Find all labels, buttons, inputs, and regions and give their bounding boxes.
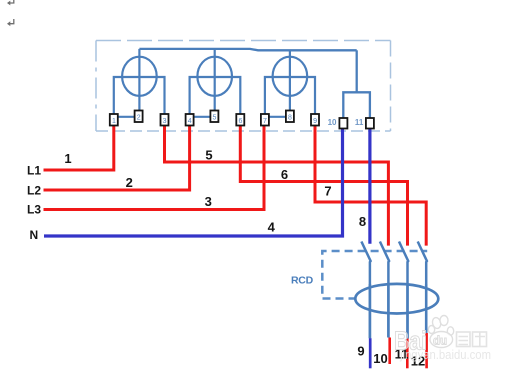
RCD pole 3 switch blade xyxy=(399,242,408,339)
wire 7 terminal 9 to RCD pole 4 xyxy=(315,126,426,246)
svg-text:8: 8 xyxy=(359,214,366,229)
svg-text:1: 1 xyxy=(112,118,116,125)
wire 1 L1 to terminal 1 xyxy=(44,126,114,171)
terminal 7 xyxy=(261,114,269,126)
svg-text:5: 5 xyxy=(213,114,217,121)
wire 11 phase output xyxy=(406,339,409,369)
svg-text:5: 5 xyxy=(205,147,212,162)
meter enclosure dashed box xyxy=(96,41,391,132)
svg-text:2: 2 xyxy=(137,114,141,121)
neutral terminal bracket wire xyxy=(343,92,370,118)
svg-text:L3: L3 xyxy=(27,203,41,217)
RCD toroid ellipse xyxy=(355,284,438,314)
svg-text:10: 10 xyxy=(328,118,337,127)
wire 9 neutral output xyxy=(369,338,372,368)
wire 8 terminal 11 to RCD pole 1 xyxy=(368,128,371,244)
RCD pole 1 wire through toroid xyxy=(369,284,372,338)
coil circle element 1 xyxy=(122,57,157,96)
svg-text:7: 7 xyxy=(324,184,331,199)
svg-text:L1: L1 xyxy=(27,164,41,178)
RCD pole 4 wire through toroid xyxy=(425,284,428,333)
coil circle element 3 xyxy=(273,57,308,96)
RCD pole 3 wire through toroid xyxy=(406,284,409,339)
svg-text:4: 4 xyxy=(188,118,192,125)
svg-text:7: 7 xyxy=(263,118,267,125)
RCD dashed enclosure and linkage line xyxy=(322,251,427,299)
svg-text:du: du xyxy=(433,336,447,348)
wire 10 phase output xyxy=(388,338,391,365)
RCD pole 4 switch blade xyxy=(418,242,427,334)
terminal 5 xyxy=(210,111,218,123)
terminal 11 xyxy=(355,118,374,129)
wire 2 L2 to terminal 4 xyxy=(44,126,190,191)
terminal 10 xyxy=(328,118,348,129)
svg-text:L2: L2 xyxy=(27,184,41,198)
wire 12 phase output xyxy=(425,333,428,368)
wire 6 terminal 6 to RCD pole 3 xyxy=(240,126,407,246)
svg-text:6: 6 xyxy=(281,167,288,182)
svg-text:8: 8 xyxy=(288,114,292,121)
terminal 4 xyxy=(186,114,194,126)
measuring element 1 current loop wiring xyxy=(114,77,165,114)
terminal 2 xyxy=(135,111,143,123)
RCD pole 2 wire through toroid xyxy=(387,284,390,338)
measuring element 1 voltage tap wire xyxy=(138,49,140,111)
terminal link wire 7-8 xyxy=(269,116,286,118)
svg-text:RCD: RCD xyxy=(291,275,314,287)
svg-text:jingyan.baidu.com: jingyan.baidu.com xyxy=(399,348,491,362)
measuring element 3 current loop wiring xyxy=(265,77,315,114)
measuring element 3 voltage tap wire xyxy=(289,50,291,110)
svg-text:2: 2 xyxy=(126,175,133,190)
svg-text:N: N xyxy=(30,228,39,242)
RCD pole 1 switch blade xyxy=(361,242,370,339)
svg-text:11: 11 xyxy=(355,118,364,127)
wire 4 neutral N to terminal 10 xyxy=(44,128,343,236)
svg-text:9: 9 xyxy=(313,118,317,125)
RCD pole 2 switch blade xyxy=(380,242,389,338)
wire bus drop to neutral terminal bracket xyxy=(356,50,358,92)
paragraph return mark top 1 xyxy=(7,0,14,5)
svg-text:3: 3 xyxy=(163,118,167,125)
paragraph return mark top 2 xyxy=(7,19,14,26)
watermark baidu jingyan xyxy=(394,316,491,362)
svg-text:1: 1 xyxy=(64,151,71,166)
terminal 1 xyxy=(110,114,118,126)
terminal 9 xyxy=(311,114,319,126)
terminal 6 xyxy=(236,114,244,126)
measuring element 2 current loop wiring xyxy=(190,77,241,114)
wire 3 L3 to terminal 7 xyxy=(44,126,265,210)
svg-text:9: 9 xyxy=(357,344,364,359)
terminal 8 xyxy=(286,111,294,123)
terminal 3 xyxy=(161,114,169,126)
svg-text:4: 4 xyxy=(268,220,276,235)
voltage bus wire xyxy=(139,49,356,50)
coil circle element 2 xyxy=(197,57,232,96)
wire 5 terminal 3 to RCD pole 2 xyxy=(165,126,389,246)
svg-text:3: 3 xyxy=(205,194,212,209)
terminal link wire 4-5 xyxy=(194,116,211,118)
svg-text:6: 6 xyxy=(238,118,242,125)
svg-text:10: 10 xyxy=(373,351,387,366)
measuring element 2 voltage tap wire xyxy=(214,49,216,111)
terminal link wire 1-2 xyxy=(118,116,135,118)
